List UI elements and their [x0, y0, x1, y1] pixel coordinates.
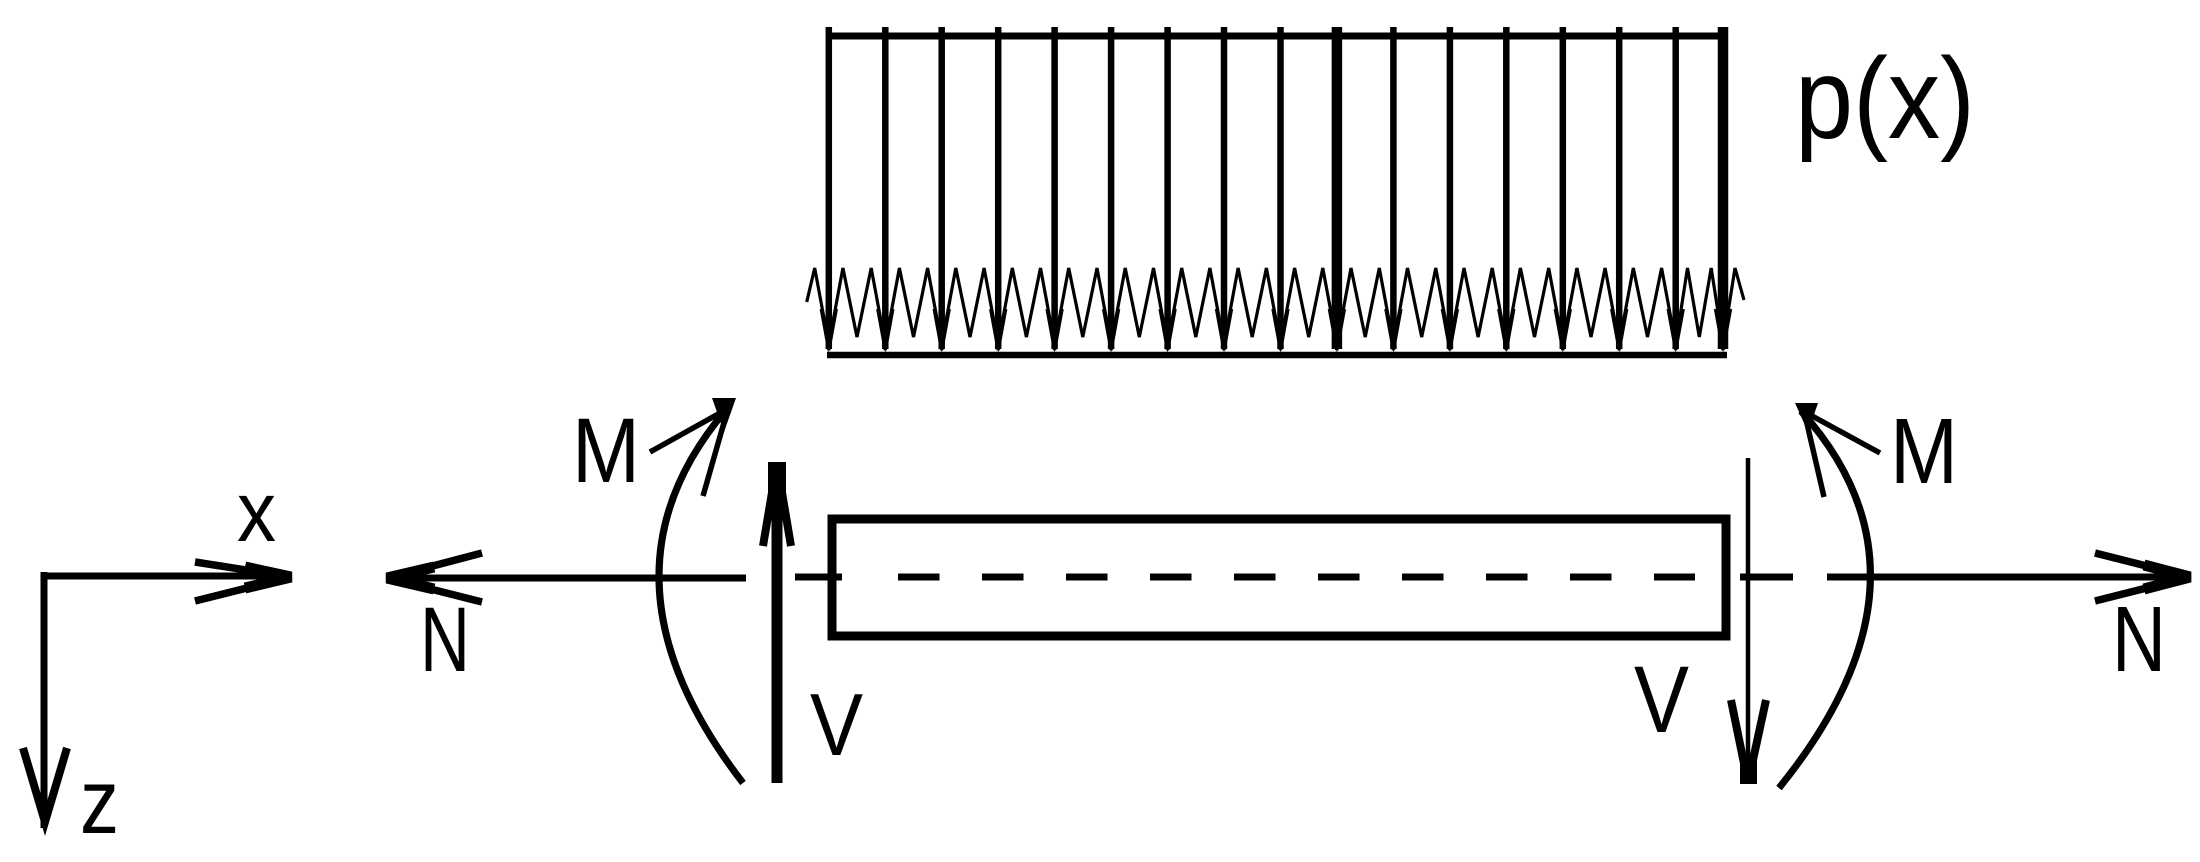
load arrow 9	[1273, 27, 1288, 353]
load arrow 14	[1555, 27, 1570, 353]
load arrow 6	[1104, 27, 1119, 353]
svg-text:V: V	[810, 675, 863, 774]
distributed load wavy line	[807, 268, 1744, 344]
load arrow 17	[1716, 27, 1731, 353]
moment arc left arrowhead	[650, 398, 736, 496]
svg-text:N: N	[2112, 587, 2166, 691]
N left arrowhead	[387, 553, 482, 602]
svg-text:N: N	[420, 589, 470, 691]
N right line	[1827, 574, 2190, 581]
V left shaft	[772, 465, 783, 783]
load arrow 3	[934, 27, 949, 353]
load arrow 7	[1160, 27, 1175, 353]
load arrow 11	[1386, 27, 1401, 353]
V right shaft	[1746, 458, 1751, 783]
distributed load top line	[828, 33, 1728, 40]
z axis line	[41, 572, 48, 828]
load arrow 4	[991, 27, 1006, 353]
x axis line	[44, 573, 288, 580]
z axis arrowhead	[23, 748, 67, 822]
svg-text:M: M	[572, 400, 640, 502]
moment arc right arrowhead	[1795, 403, 1880, 497]
svg-text:x: x	[237, 465, 276, 560]
load arrow 15	[1612, 27, 1627, 353]
load arrow 12	[1442, 27, 1457, 353]
load arrow 13	[1499, 27, 1514, 353]
N right arrowhead	[2095, 553, 2190, 601]
svg-text:V: V	[1634, 647, 1689, 753]
N left line	[388, 575, 746, 582]
beam rectangle	[832, 519, 1726, 636]
moment arc right M	[1779, 411, 1870, 788]
svg-text:p(x): p(x)	[1795, 35, 1975, 163]
load arrow 8	[1217, 27, 1232, 353]
V left arrowhead	[763, 462, 791, 546]
load arrow 2	[878, 27, 893, 353]
beam centerline dashed	[898, 574, 1695, 581]
V right arrowhead	[1731, 700, 1766, 784]
beam centerline connector right	[1740, 574, 1793, 581]
distributed load bottom line	[827, 352, 1727, 359]
load arrow 1	[821, 27, 836, 353]
svg-text:M: M	[1890, 399, 1958, 503]
load arrow 16	[1668, 27, 1683, 353]
beam centerline connector left	[795, 574, 842, 581]
moment arc left M	[659, 410, 743, 783]
load arrow 10	[1329, 27, 1344, 353]
x axis arrowhead	[195, 562, 291, 601]
svg-text:z: z	[80, 751, 119, 853]
load arrow 5	[1047, 27, 1062, 353]
